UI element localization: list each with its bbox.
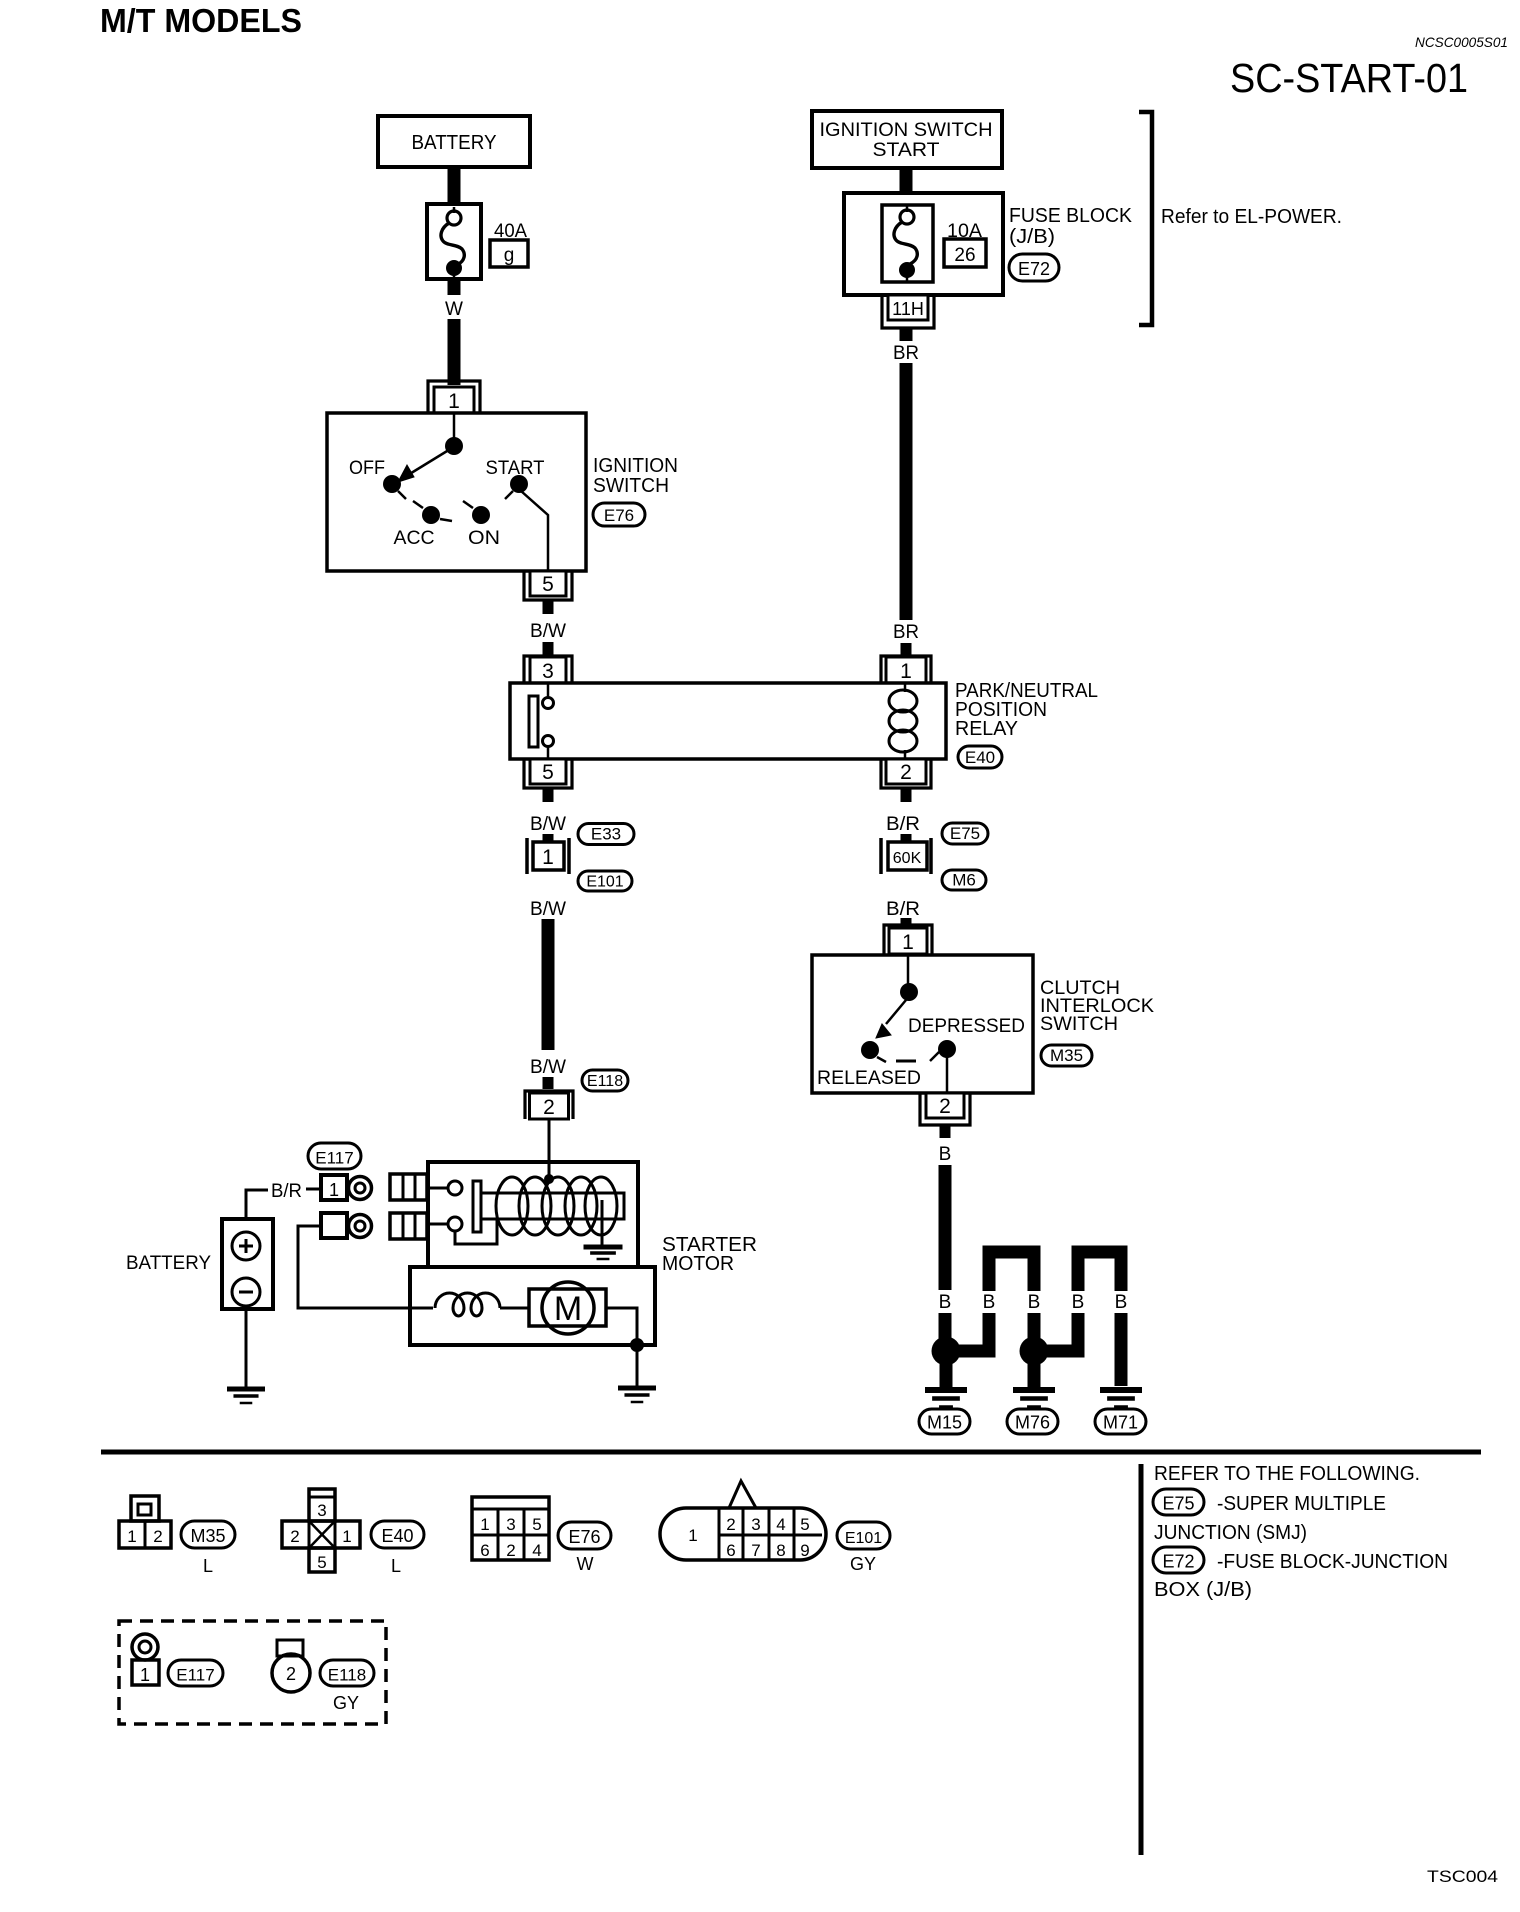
wire bridge1 left leg to junction	[948, 1313, 989, 1351]
wire coil to motor	[500, 1307, 529, 1310]
svg-text:M35: M35	[190, 1526, 225, 1546]
wire pin2 to solenoid coil	[548, 1119, 551, 1180]
svg-text:FUSE BLOCK: FUSE BLOCK	[1009, 205, 1133, 227]
terminal box 2	[321, 1213, 347, 1238]
svg-text:1: 1	[900, 660, 912, 683]
svg-text:4: 4	[776, 1515, 785, 1534]
svg-text:M76: M76	[1015, 1413, 1050, 1433]
connector pin 2 relay	[881, 759, 931, 788]
connector pin 2 starter	[525, 1091, 573, 1119]
svg-text:60K: 60K	[893, 850, 922, 867]
svg-text:B/R: B/R	[886, 899, 920, 920]
svg-text:E118: E118	[328, 1665, 366, 1684]
junction dot coil feed	[544, 1174, 554, 1184]
wire DEPRESSED to pin 2	[946, 1057, 949, 1093]
svg-text:3: 3	[542, 660, 554, 683]
svg-text:3: 3	[751, 1515, 760, 1534]
svg-text:5: 5	[542, 761, 554, 784]
svg-text:5: 5	[800, 1515, 809, 1534]
wire stub to clutch switch	[901, 918, 912, 926]
connector pin 1 relay	[881, 656, 931, 683]
wire B to junction M15	[939, 1313, 952, 1342]
svg-text:E72: E72	[1018, 259, 1050, 279]
ground starter motor	[618, 1386, 656, 1391]
svg-text:B: B	[939, 1144, 952, 1165]
svg-text:1: 1	[542, 846, 554, 869]
relay coil	[904, 683, 907, 692]
starter motor solenoid box	[428, 1162, 638, 1267]
legend oval E101	[837, 1522, 890, 1549]
wire stub below relay pin5	[543, 788, 554, 802]
wire bridge 1	[989, 1252, 1034, 1291]
wire stub to E33	[543, 834, 554, 842]
svg-text:E75: E75	[950, 824, 980, 843]
svg-text:(J/B): (J/B)	[1009, 226, 1055, 248]
wire stub to relay pin 3	[543, 642, 554, 656]
SMJ connector 60K	[879, 838, 883, 874]
svg-text:L: L	[203, 1556, 213, 1576]
svg-text:GY: GY	[850, 1554, 876, 1574]
contact ON	[472, 506, 490, 524]
hatched stud terminal lower	[390, 1213, 427, 1239]
wire W down to ignition switch	[448, 319, 461, 385]
ring terminal 2	[349, 1215, 372, 1238]
wire stub to relay pin 1	[901, 643, 912, 656]
svg-text:BATTERY: BATTERY	[412, 132, 497, 154]
svg-text:1: 1	[342, 1527, 351, 1546]
svg-text:B/W: B/W	[530, 621, 566, 642]
legend oval E75	[1153, 1489, 1204, 1515]
svg-text:L: L	[391, 1556, 401, 1576]
wire START to pin 5	[521, 491, 548, 571]
svg-text:B/R: B/R	[886, 814, 920, 835]
ground solenoid	[584, 1245, 623, 1250]
fusible link 40A g	[427, 204, 481, 279]
legend oval E76	[558, 1522, 611, 1549]
wire junction to ground M15	[940, 1351, 953, 1387]
connector oval E40	[958, 746, 1002, 768]
wire stub B/W	[543, 600, 554, 614]
svg-text:NCSC0005S01: NCSC0005S01	[1415, 34, 1508, 50]
svg-text:BATTERY: BATTERY	[126, 1253, 211, 1274]
svg-text:-SUPER MULTIPLE: -SUPER MULTIPLE	[1217, 1493, 1386, 1515]
svg-text:3: 3	[506, 1515, 515, 1534]
svg-text:START: START	[873, 140, 940, 161]
svg-text:2: 2	[543, 1096, 555, 1119]
wire terminal2 to motor	[298, 1226, 433, 1308]
inline connector 1 E33/E101	[525, 838, 529, 874]
battery symbol box	[222, 1219, 273, 1309]
svg-text:ON: ON	[468, 528, 500, 549]
wire stub BR	[900, 328, 913, 341]
svg-text:SC-START-01: SC-START-01	[1230, 55, 1468, 101]
wire pin1 to rotor	[453, 413, 456, 446]
connector oval E76	[593, 503, 645, 526]
legend oval M35	[181, 1521, 235, 1548]
wire to ground M71	[1115, 1313, 1128, 1386]
ignition switch start feed box	[812, 111, 1002, 168]
wire to fuse block	[900, 168, 913, 195]
svg-text:BR: BR	[893, 343, 919, 364]
svg-text:E101: E101	[845, 1530, 882, 1547]
svg-text:E101: E101	[586, 873, 623, 890]
legend connector E76	[472, 1497, 549, 1560]
wire B/W long down	[542, 919, 555, 1050]
wire battery minus to ground	[245, 1306, 248, 1389]
solenoid plunger bar	[473, 1181, 481, 1232]
connector pin 1 ignition switch	[428, 381, 480, 413]
wire B down	[939, 1165, 952, 1290]
legend connector E101	[660, 1508, 826, 1560]
connector pin 1 clutch switch	[884, 925, 932, 954]
svg-text:W: W	[577, 1554, 594, 1574]
connector oval E72	[1009, 254, 1059, 281]
svg-text:-FUSE BLOCK-JUNCTION: -FUSE BLOCK-JUNCTION	[1217, 1551, 1448, 1573]
svg-text:2: 2	[153, 1527, 162, 1546]
battery supply box	[378, 116, 530, 167]
connector oval E117	[308, 1143, 361, 1169]
legend oval E72	[1153, 1547, 1204, 1573]
connector oval M6	[942, 870, 986, 890]
reference bracket EL-POWER	[1139, 112, 1152, 325]
wire bridge 2	[1078, 1252, 1121, 1291]
fuse id box g	[490, 240, 528, 267]
junction dot M76	[1020, 1337, 1049, 1366]
clutch rotor dot	[900, 983, 918, 1001]
wire pin1 to contact	[907, 955, 910, 985]
wire battery to fuse 40A	[448, 167, 461, 206]
relay contact terminals	[547, 683, 550, 698]
svg-text:2: 2	[290, 1527, 299, 1546]
contact RELEASED	[861, 1041, 879, 1059]
hatched stud terminal upper	[390, 1174, 427, 1200]
ground battery	[227, 1387, 265, 1392]
svg-text:5: 5	[317, 1553, 326, 1572]
svg-text:7: 7	[751, 1541, 760, 1560]
svg-text:W: W	[445, 299, 463, 320]
wire battery plus to B/R terminal	[246, 1190, 268, 1219]
svg-text:M: M	[554, 1290, 582, 1328]
svg-text:6: 6	[726, 1541, 735, 1560]
svg-text:E117: E117	[176, 1665, 214, 1684]
svg-text:3: 3	[317, 1501, 326, 1520]
svg-text:B/W: B/W	[530, 814, 566, 835]
svg-text:B: B	[939, 1292, 952, 1313]
svg-text:1: 1	[127, 1527, 136, 1546]
connector oval E118	[582, 1070, 628, 1091]
wire to motor ground	[636, 1345, 639, 1388]
svg-text:2: 2	[726, 1515, 735, 1534]
contact START	[510, 475, 528, 493]
svg-text:BR: BR	[893, 622, 919, 643]
legend vertical rule	[1139, 1464, 1144, 1855]
connector pin 3 relay	[524, 656, 572, 683]
separator line	[101, 1450, 1481, 1455]
connector oval M71	[1095, 1409, 1146, 1434]
svg-text:8: 8	[776, 1541, 785, 1560]
legend oval E117	[168, 1660, 223, 1686]
contact DEPRESSED	[938, 1040, 956, 1058]
battery plus terminal	[232, 1232, 260, 1260]
svg-text:g: g	[504, 245, 515, 266]
connector oval E101	[578, 871, 632, 891]
svg-text:JUNCTION (SMJ): JUNCTION (SMJ)	[1154, 1522, 1307, 1544]
contact OFF	[383, 475, 401, 493]
svg-text:6: 6	[480, 1541, 489, 1560]
svg-text:Refer to EL-POWER.: Refer to EL-POWER.	[1161, 206, 1342, 228]
svg-text:E40: E40	[381, 1526, 413, 1546]
junction dot M15	[932, 1337, 961, 1366]
connector oval E75	[942, 823, 988, 844]
svg-text:B/W: B/W	[530, 899, 566, 920]
rotor contact dot	[445, 437, 463, 455]
connector pin 5 relay	[524, 759, 572, 788]
svg-text:B/W: B/W	[530, 1057, 566, 1078]
terminal box 1 E117	[321, 1175, 347, 1200]
svg-text:1: 1	[140, 1665, 150, 1685]
connector oval M35	[1041, 1045, 1092, 1066]
clutch interlock switch box M35	[812, 955, 1033, 1093]
connector oval M15	[919, 1409, 970, 1434]
svg-text:2: 2	[900, 761, 912, 784]
wire stub below fuse	[448, 279, 461, 295]
park/neutral position relay box E40	[510, 683, 946, 759]
wire lower contact to plunger	[455, 1219, 497, 1244]
svg-text:5: 5	[532, 1515, 541, 1534]
legend oval E118	[320, 1660, 374, 1686]
solenoid coil	[496, 1177, 528, 1235]
svg-text:E72: E72	[1162, 1551, 1194, 1571]
svg-text:2: 2	[506, 1541, 515, 1560]
svg-text:2: 2	[286, 1664, 296, 1684]
svg-text:B: B	[1072, 1292, 1085, 1313]
svg-text:11H: 11H	[892, 299, 924, 319]
wire stub above starter pin 2	[543, 1077, 554, 1089]
legend connector M35	[131, 1496, 159, 1521]
svg-text:M6: M6	[952, 870, 976, 889]
legend ring terminal E117	[132, 1634, 158, 1660]
svg-text:START: START	[486, 458, 545, 479]
fuse id box 26	[944, 239, 986, 267]
svg-text:4: 4	[532, 1541, 541, 1560]
svg-text:E76: E76	[604, 506, 634, 525]
svg-text:B: B	[983, 1292, 996, 1313]
svg-text:B/R: B/R	[271, 1181, 302, 1202]
svg-text:BOX (J/B): BOX (J/B)	[1154, 1579, 1252, 1601]
svg-text:M/T MODELS: M/T MODELS	[100, 2, 302, 39]
svg-text:RELEASED: RELEASED	[817, 1068, 921, 1089]
svg-text:SWITCH: SWITCH	[593, 475, 669, 497]
svg-text:E117: E117	[315, 1148, 353, 1167]
connector oval E33	[578, 824, 634, 845]
arrow to RELEASED	[886, 1000, 906, 1024]
wire B to junction M76	[1028, 1313, 1041, 1342]
svg-text:1: 1	[480, 1515, 489, 1534]
fuse block J/B box E72	[844, 193, 1003, 295]
svg-text:5: 5	[542, 573, 554, 596]
ring terminal 1	[349, 1177, 372, 1200]
svg-text:9: 9	[800, 1541, 809, 1560]
connector pin 5 ignition switch	[524, 571, 572, 600]
arrow to OFF	[408, 448, 452, 475]
starter motor lower box	[410, 1267, 655, 1345]
connector oval M76	[1007, 1409, 1058, 1434]
svg-text:1: 1	[329, 1180, 339, 1200]
svg-text:M15: M15	[927, 1413, 962, 1433]
contact dash	[896, 1060, 916, 1063]
wire coil to ground	[601, 1200, 604, 1247]
svg-text:MOTOR: MOTOR	[662, 1253, 734, 1275]
svg-text:IGNITION: IGNITION	[593, 455, 678, 477]
wire stub below relay pin2	[901, 788, 912, 802]
junction dot motor ground	[630, 1338, 644, 1352]
legend oval E40	[371, 1521, 424, 1548]
legend stud terminal E118	[277, 1640, 303, 1656]
svg-text:E40: E40	[965, 748, 995, 767]
svg-text:IGNITION SWITCH: IGNITION SWITCH	[820, 120, 993, 141]
wire stub B below clutch	[940, 1125, 951, 1138]
svg-text:E75: E75	[1162, 1493, 1194, 1513]
connector pin 11H fuse block	[882, 295, 934, 328]
solenoid contact circles	[448, 1181, 462, 1195]
svg-text:E33: E33	[591, 825, 621, 844]
battery minus terminal	[232, 1278, 260, 1306]
svg-text:RELAY: RELAY	[955, 718, 1018, 740]
legend connector E40	[309, 1489, 335, 1521]
ground M76	[1013, 1387, 1055, 1393]
contact ACC	[422, 506, 440, 524]
svg-text:OFF: OFF	[349, 458, 385, 479]
ground M71	[1100, 1387, 1142, 1393]
motor M box	[529, 1289, 606, 1326]
wire BR down to relay	[900, 363, 913, 620]
svg-text:B: B	[1115, 1292, 1128, 1313]
motor M circle	[542, 1282, 594, 1334]
svg-text:M35: M35	[1050, 1046, 1083, 1065]
svg-text:B: B	[1028, 1292, 1041, 1313]
relay contact fixed bar	[529, 696, 538, 747]
ground M15	[925, 1387, 967, 1393]
svg-text:E76: E76	[568, 1527, 600, 1547]
connector pin 2 clutch switch	[920, 1093, 970, 1125]
legend dashed box	[119, 1621, 386, 1724]
wire junction to ground M76	[1028, 1351, 1041, 1387]
svg-text:SWITCH: SWITCH	[1040, 1014, 1118, 1035]
svg-text:REFER TO THE FOLLOWING.: REFER TO THE FOLLOWING.	[1154, 1463, 1420, 1485]
svg-text:GY: GY	[333, 1693, 359, 1713]
svg-text:1: 1	[448, 390, 460, 413]
wire stub to 60K	[901, 834, 912, 842]
solenoid input leads	[428, 1187, 448, 1190]
fuse 10A 26	[882, 205, 933, 282]
svg-text:1: 1	[688, 1526, 697, 1545]
ignition switch box E76	[327, 413, 586, 571]
svg-text:TSC004: TSC004	[1427, 1867, 1498, 1886]
svg-text:M71: M71	[1103, 1413, 1138, 1433]
svg-text:1: 1	[902, 931, 914, 954]
svg-text:ACC: ACC	[394, 528, 435, 549]
svg-text:26: 26	[954, 245, 975, 266]
wire motor to junction	[606, 1308, 637, 1345]
wire bridge2 left leg to junction	[1036, 1313, 1078, 1351]
svg-text:DEPRESSED: DEPRESSED	[908, 1016, 1025, 1037]
solenoid plunger rect	[481, 1193, 624, 1219]
svg-text:E118: E118	[587, 1073, 623, 1090]
svg-text:2: 2	[939, 1095, 951, 1118]
motor field coil	[435, 1293, 500, 1316]
